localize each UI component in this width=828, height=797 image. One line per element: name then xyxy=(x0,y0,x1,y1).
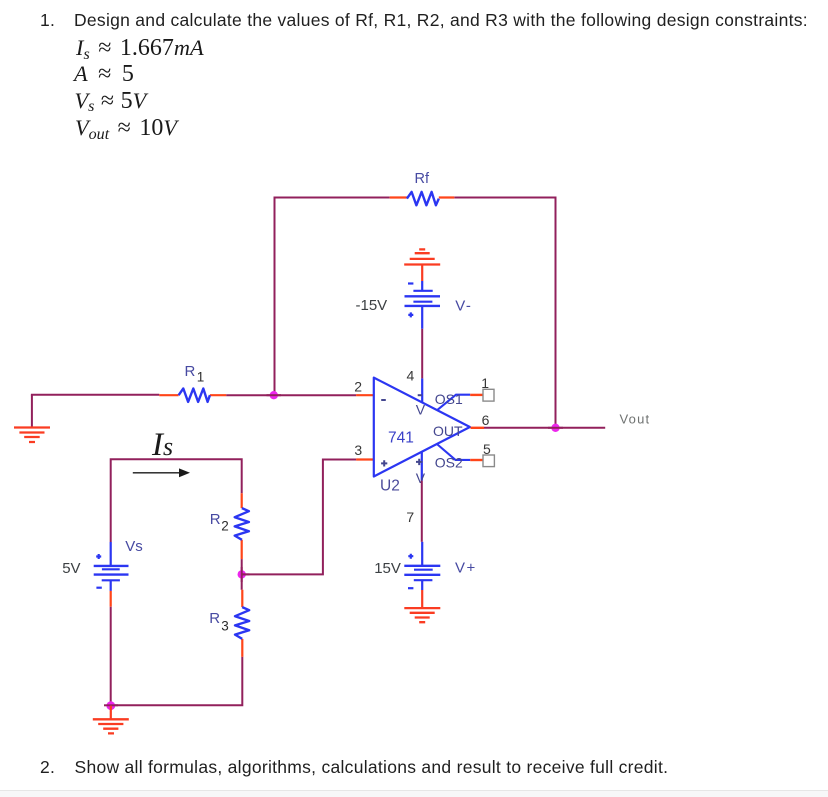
svg-text:Vout: Vout xyxy=(620,411,651,426)
battery V2 15V xyxy=(404,542,440,590)
junction node (output / feedback) xyxy=(551,424,559,432)
wire: output to Vout xyxy=(484,427,605,429)
svg-text:OUT: OUT xyxy=(433,423,463,439)
svg-text:2: 2 xyxy=(354,378,362,394)
svg-text:3: 3 xyxy=(354,442,362,458)
svg-text:5V: 5V xyxy=(62,560,80,577)
svg-text:Rf: Rf xyxy=(415,171,430,187)
battery V1 -15V xyxy=(405,281,441,329)
svg-text:3: 3 xyxy=(221,619,229,634)
wire: pin 7 to 15V battery xyxy=(421,481,423,542)
svg-text:V-: V- xyxy=(455,298,472,315)
ground above -15V battery xyxy=(404,249,440,281)
minus mark xyxy=(408,282,413,284)
wire: feedback top horizontal xyxy=(275,197,556,199)
plus mark xyxy=(408,312,413,317)
resistor R1 xyxy=(159,389,226,402)
svg-text:V+: V+ xyxy=(455,560,477,577)
svg-text:4: 4 xyxy=(407,368,415,384)
pin 4 lead xyxy=(421,378,423,402)
op-amp input minus xyxy=(381,399,386,401)
plus mark xyxy=(408,554,413,559)
pin 4 V- marker xyxy=(418,394,422,396)
ground (bottom left) xyxy=(93,706,129,734)
wire: Is loop (Vs top to R2 top) xyxy=(111,459,242,542)
math line Vout xyxy=(75,116,177,140)
op-amp U2 pin 2 stub xyxy=(356,394,373,396)
junction node (bottom / ground) xyxy=(106,701,115,710)
wire: ground to R1 xyxy=(31,394,159,396)
wire: Vs to bottom junction xyxy=(110,607,112,706)
svg-text:1: 1 xyxy=(481,375,489,391)
svg-text:R: R xyxy=(209,610,220,627)
svg-text:Vs: Vs xyxy=(125,538,143,555)
minus mark xyxy=(96,587,101,589)
junction node (R1 / feedback) xyxy=(270,391,278,399)
svg-text:U2: U2 xyxy=(380,478,400,495)
svg-text:5: 5 xyxy=(483,441,491,457)
svg-text:OS1: OS1 xyxy=(435,391,463,407)
svg-text:15V: 15V xyxy=(374,560,401,577)
resistor R3 xyxy=(235,590,249,657)
pin OS2 lead xyxy=(437,444,470,460)
svg-text:V: V xyxy=(416,402,426,418)
svg-text:6: 6 xyxy=(482,412,490,428)
wire: feedback right vertical xyxy=(555,197,557,428)
minus mark xyxy=(408,587,413,589)
math line A xyxy=(74,62,134,86)
plus mark xyxy=(96,554,101,559)
svg-text:R: R xyxy=(185,363,196,380)
junction node (R2 / R3 / op-amp) xyxy=(238,570,246,578)
svg-text:741: 741 xyxy=(388,430,414,447)
bottom grey strip xyxy=(0,790,828,791)
wire: feedback left vertical xyxy=(274,197,276,396)
pin OUT (6) stub xyxy=(471,427,485,429)
terminal square OS2 xyxy=(483,455,494,467)
math line Is xyxy=(76,36,204,60)
current arrow xyxy=(133,468,190,477)
ground (far left) xyxy=(14,395,50,442)
terminal square OS1 xyxy=(483,389,494,401)
svg-text:2: 2 xyxy=(221,519,229,534)
op-amp input plus xyxy=(381,460,387,466)
svg-text:OS2: OS2 xyxy=(435,455,463,471)
wire: R1 to op-amp pin 2 xyxy=(226,394,356,396)
resistor R2 xyxy=(235,493,249,559)
wire: R2 to junction xyxy=(241,559,243,590)
item 2 xyxy=(40,759,55,777)
svg-text:1: 1 xyxy=(197,370,205,385)
pin 7 lead xyxy=(421,452,423,481)
svg-text:-15V: -15V xyxy=(356,297,388,314)
wire: R3 to bottom wire xyxy=(111,657,243,705)
math line Vs xyxy=(75,89,147,113)
op-amp U2 triangle xyxy=(374,378,470,477)
wire: -15V battery to pin 4 xyxy=(421,329,423,379)
wire: junction to op-amp pin 3 xyxy=(242,460,356,575)
op-amp U2 pin 3 stub xyxy=(356,458,373,460)
battery Vs 5V xyxy=(94,542,129,607)
svg-text:Is: Is xyxy=(151,427,173,463)
ground below 15V battery xyxy=(404,590,440,622)
pin OS1 lead xyxy=(437,395,470,411)
svg-text:R: R xyxy=(210,511,221,528)
resistor Rf xyxy=(390,192,455,205)
pin 7 V+ marker xyxy=(416,459,422,465)
heading item 1 xyxy=(40,12,55,30)
svg-text:7: 7 xyxy=(406,509,414,525)
